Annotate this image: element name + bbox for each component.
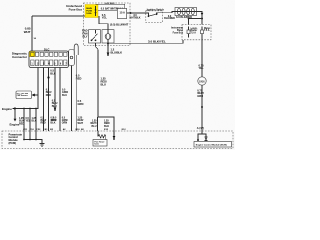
label relay <box>82 29 88 39</box>
wire DLC side connector to ECM <box>71 66 73 132</box>
DLC side connector <box>69 50 75 66</box>
label 0.5 BLU/RED <box>46 89 52 97</box>
label 0.75 WHT/GRN <box>197 88 204 98</box>
label 0.5 RED <box>76 74 82 81</box>
fuse MAIN FUSE 100A yellow highlight <box>85 5 98 18</box>
label 0.5 ORN/BLK pin stack <box>51 116 57 124</box>
engine ground stub 2 <box>14 109 16 120</box>
label 0.5 GRN/BLU <box>62 89 68 97</box>
wire DLC pin5 to off-page arrow <box>54 68 56 108</box>
ECM label box <box>194 142 232 148</box>
instrument panel fuse box dashed <box>182 25 211 40</box>
fan timer unit box <box>93 140 107 147</box>
svg-text:Engine: Engine <box>10 122 20 126</box>
svg-text:WHT: WHT <box>78 122 84 125</box>
diagnostic connector body <box>29 51 69 68</box>
svg-text:Radio: Radio <box>191 30 198 32</box>
junction under relay coil <box>107 43 109 45</box>
label Ignition Switch <box>147 9 165 12</box>
DLC pin 1 yellow highlight <box>30 52 35 57</box>
wire connector down to ECM <box>201 85 203 131</box>
wire loop box to IP fuse box <box>197 12 203 25</box>
svg-text:WHT: WHT <box>51 119 57 122</box>
wire relay switch to ECM long vertical <box>96 43 99 117</box>
label 0.5 GRN/ORN pin stack <box>62 116 68 124</box>
ECM internal arrow right branch <box>113 131 115 137</box>
arrow into sensor box <box>35 94 39 96</box>
label Engine <box>2 107 12 111</box>
svg-text:BLU: BLU <box>52 105 57 108</box>
label 3.0 WHT/BLK <box>129 14 140 19</box>
svg-text:RED: RED <box>46 94 51 97</box>
junction dot <box>201 106 203 108</box>
label 0.5 BLU/WHT <box>110 23 129 27</box>
label 3.0 BLK/YEL <box>148 39 166 43</box>
relay coil right box <box>102 30 114 43</box>
wire top-left horizontal <box>32 15 85 17</box>
svg-text:BLK: BLK <box>51 122 56 125</box>
svg-text:BLK/RED: BLK/RED <box>164 17 175 20</box>
wire loop to ECM <box>75 55 77 131</box>
label 0.5 BLK/BLU <box>52 100 58 108</box>
node label near DLC wire <box>34 38 37 40</box>
label 0.85 WHT <box>24 27 31 35</box>
junction dot branch <box>201 18 203 20</box>
DLC label <box>44 47 49 51</box>
label 0.5 BLK <box>50 69 55 76</box>
fuse Clock Radio 7.5A <box>188 27 190 38</box>
wire branch to left fuse <box>189 19 203 25</box>
svg-text:ORN: ORN <box>62 122 68 125</box>
wire meter fuse down <box>201 40 203 77</box>
DLC top pin row <box>31 52 67 56</box>
svg-text:3.0 BLK/YEL: 3.0 BLK/YEL <box>148 39 166 43</box>
label 0.5 WHT pin stack <box>51 116 57 122</box>
svg-text:FUSE: FUSE <box>86 10 92 12</box>
ignition switch contacts <box>146 13 149 16</box>
svg-text:1.25 WHT: 1.25 WHT <box>105 3 116 5</box>
wire fuse top to 15A fuse <box>96 4 125 8</box>
label 1.25 BLK/RED ground pin stack <box>19 117 25 125</box>
wire fuse to 15A left <box>98 9 117 11</box>
wire yellow fuse to relay coil <box>99 16 108 30</box>
label 0.5 GRN <box>78 99 84 106</box>
diagnostic connector label <box>12 52 28 60</box>
pin label A17 <box>197 126 204 130</box>
wire stub to fan motor arrow <box>107 44 109 53</box>
svg-text:BLK: BLK <box>104 125 109 128</box>
svg-text:CMP Sensors: CMP Sensors <box>17 95 28 97</box>
svg-text:YEL: YEL <box>26 120 31 123</box>
connector C416 circle <box>198 77 206 85</box>
svg-text:Fuse Box: Fuse Box <box>69 8 83 12</box>
svg-text:Fan Timer: Fan Timer <box>95 141 105 143</box>
label 1.25 RED BLU <box>101 77 108 87</box>
svg-text:Engine: Engine <box>2 107 12 111</box>
label Instrument Panel Fuse Box <box>171 26 184 34</box>
wire DLC pin4 with splice dot <box>48 68 50 132</box>
svg-text:BLU: BLU <box>92 125 97 128</box>
svg-text:ECT, CKP and: ECT, CKP and <box>17 93 28 95</box>
noise loop element <box>74 44 78 55</box>
wire DLC pin3 to ECM <box>43 68 45 132</box>
ground symbol <box>40 144 45 147</box>
wire BLK/YEL to instrument panel fuse box <box>108 40 183 44</box>
ECM feed T split <box>98 117 115 131</box>
wire 15A to ignition switch <box>127 12 146 14</box>
label Underhood Fuse Box <box>66 4 82 12</box>
label 3.0 BLK/RED <box>164 15 175 20</box>
label 1.25 WHT/BLU <box>90 120 97 128</box>
svg-text:Panel: Panel <box>177 30 183 32</box>
label 1.25 RED/WHT <box>78 117 84 125</box>
label 0.75 YEL <box>199 63 205 70</box>
label 1.25 RED/BLK <box>104 120 110 128</box>
svg-text:BLK: BLK <box>32 120 37 123</box>
label Engine 2 <box>10 122 20 126</box>
relay RAD FAN left box <box>89 30 101 43</box>
label Powertrain Control Module <box>9 132 23 145</box>
label 1.2 BLU/BLK <box>111 48 123 55</box>
DLC pin numbers 1-8 <box>31 63 73 66</box>
connector loop box <box>175 8 197 16</box>
wire DLC pin2 ground run <box>13 68 38 109</box>
wire top-left vertical to DLC <box>31 16 33 52</box>
label 1.25 BLK ground pin stack <box>32 117 37 123</box>
wire ignition out BLK/RED <box>157 12 176 15</box>
label 0.5 YEL ground pin stack <box>26 117 31 123</box>
ECM internal ground bus <box>24 131 36 140</box>
fuse Meter 7.5A <box>201 27 203 40</box>
ECM internal resistor <box>97 131 99 136</box>
DLC bottom pin row <box>31 60 67 66</box>
svg-text:BLU: BLU <box>62 94 67 97</box>
underhood fuse box dashed outline <box>84 3 131 46</box>
svg-text:WHT: WHT <box>24 30 31 34</box>
label 0.5 BLU/RED pin stack <box>41 116 47 124</box>
fuse 15A box <box>117 9 126 19</box>
ECM pin labels <box>23 128 126 131</box>
svg-text:WHT/BLK: WHT/BLK <box>129 17 140 20</box>
ground drops to ECM pins <box>23 108 25 110</box>
label 1.2 BAT WHT/BLK A <box>101 7 124 10</box>
ECM right chain internals <box>198 131 206 140</box>
wire DLC pin6 to ECM <box>59 68 61 132</box>
svg-text:Connector: Connector <box>12 55 28 59</box>
label 0.5 YEL <box>102 13 108 20</box>
svg-text:RED: RED <box>19 122 24 125</box>
sensor box ECT CKP <box>16 91 32 99</box>
label BLK/RED under loop box <box>176 15 192 19</box>
svg-text:RED: RED <box>41 122 46 125</box>
label 0.5 WHT <box>105 3 116 5</box>
junction dot at fuse box edge <box>130 12 132 14</box>
ignition switch dashed box <box>146 11 163 23</box>
svg-text:Fuse Box: Fuse Box <box>173 32 184 34</box>
ECM dashed box <box>2 131 233 149</box>
svg-text:Clock,: Clock, <box>191 28 198 30</box>
svg-text:Ignition Switch: Ignition Switch <box>147 9 165 12</box>
